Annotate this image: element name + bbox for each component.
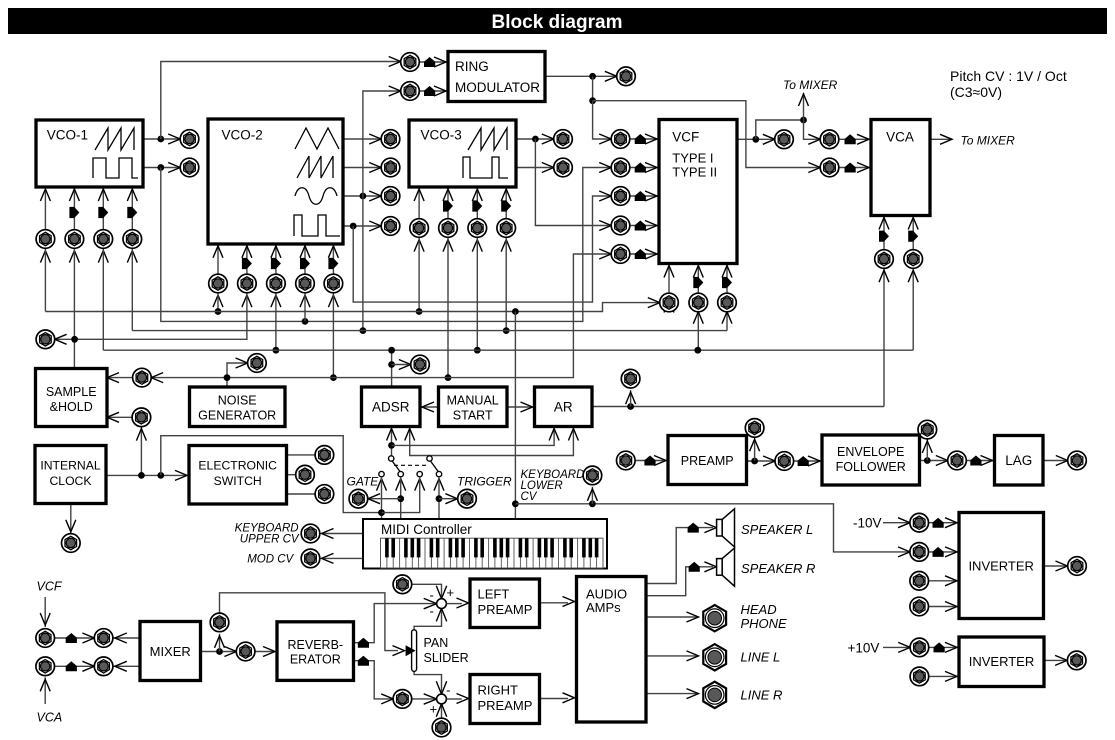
jack VCA in 2 [820, 158, 839, 177]
switch pivot 2 [427, 456, 432, 461]
patch-arrow VCA mod 1 [879, 231, 889, 242]
wire MIDI trig to contact 4 [438, 477, 440, 519]
arrowhead into ADSR trigger [422, 402, 434, 412]
arrowhead into right preamp [457, 694, 469, 704]
wire VCF input 2 jack to box [630, 167, 659, 169]
jack mixer out [236, 642, 255, 661]
box AR [535, 387, 593, 427]
svg-text:SPEAKER L: SPEAKER L [741, 522, 813, 537]
wire VCO-3 mod 477.3 up [476, 187, 478, 219]
svg-text:START: START [453, 409, 493, 423]
jack VCO-1 pulse out [180, 158, 199, 177]
junction EG bus / VCF jack2 [694, 347, 701, 354]
junction kbd lower CV branch [512, 500, 519, 507]
arrowhead into VCO-3 jack 448 [443, 240, 453, 252]
svg-text:REVERB-: REVERB- [288, 638, 344, 652]
svg-text:RING: RING [455, 59, 489, 74]
svg-text:VCO-3: VCO-3 [421, 128, 462, 143]
arrowhead into VCO-3 pulse jack [542, 163, 554, 173]
wire VCO-3 jack1 down to kbd bus [418, 237, 420, 311]
wire left input jack to adder top [412, 584, 442, 599]
wire mixer out jack to reverb [255, 651, 277, 653]
wire mixer out up to jack [219, 634, 221, 652]
arrowhead into switch contact 3 [415, 479, 425, 491]
wire VCF bottom jack2 down to EG bus [697, 312, 699, 351]
svg-text:SWITCH: SWITCH [214, 474, 262, 488]
jack inv1 in3 [910, 572, 929, 591]
wire MIDI to mod CV jack [322, 557, 364, 559]
wire VCF feed down to mixer jack1 [44, 597, 46, 627]
arrowhead into clock out jack [66, 520, 76, 532]
jack right ch in [393, 690, 412, 709]
svg-text:LEFT: LEFT [478, 587, 510, 602]
box LEFT PREAMP [470, 579, 540, 628]
wire VCA output [930, 138, 952, 140]
wire inverter1 out [1044, 565, 1068, 567]
jack VCO-3 mod 448 [439, 219, 458, 238]
svg-text:+: + [447, 585, 455, 600]
VCO-3 saw glyph [468, 128, 507, 150]
junction mixer out branch [216, 648, 223, 655]
wire VCO-3 pulse out to jack [516, 167, 554, 169]
arrowhead into reverberator [263, 647, 275, 657]
patch-arrow VCO-1 mod 103.3 [98, 207, 108, 218]
svg-text:MIDI Controller: MIDI Controller [381, 522, 472, 537]
arrowhead into VCF bottom jack1 [648, 298, 660, 308]
wire mixer jack1 to jack2 [54, 637, 94, 639]
arrowhead into preamp out jack [763, 456, 775, 466]
patch-arrow VCF input 4 [635, 221, 646, 231]
wire VCO-2 sine out to jack [343, 195, 381, 197]
patch-arrow VCO-2 mod 333.4 [328, 258, 338, 269]
wire mixer output [201, 651, 237, 653]
svg-text:SLIDER: SLIDER [424, 651, 469, 665]
arrowhead into -10V jack [898, 518, 910, 528]
arrowhead into VCA bottom jack2 [908, 270, 918, 282]
jack mod CV [301, 549, 320, 568]
patch-arrow VCO-3 mod 506.2 [501, 200, 511, 211]
arrowhead into VCF bottom jack2 [693, 312, 703, 324]
box ELECTRONIC SWITCH [189, 446, 287, 505]
arrowhead into VCA in jack 1 [808, 134, 820, 144]
VCO-2 pulse glyph [294, 215, 340, 236]
svg-text:PHONE: PHONE [741, 616, 788, 631]
jack VCA in 1 [820, 130, 839, 149]
jack GATE [349, 489, 368, 508]
svg-text:MOD CV: MOD CV [247, 554, 294, 566]
junction noise out branch [224, 374, 231, 381]
wire VCO-2 mod 246.9 up [246, 244, 248, 274]
arrowhead into VCO-2 jack 275.9 [271, 295, 281, 307]
patch-arrow lag input [970, 456, 981, 466]
jack VCO-1 mod 45.4 [36, 230, 55, 249]
wire left adder out [446, 603, 461, 605]
jack VCO-1 mod 103.3 [94, 230, 113, 249]
patch-arrow reverb out 1 [358, 638, 369, 648]
VCO-2 saw glyph [297, 156, 333, 178]
arrowhead into VCO-1 jack 74.4 [69, 251, 79, 263]
svg-text:INVERTER: INVERTER [968, 559, 1034, 574]
arrowhead to mixer (upper) [799, 94, 809, 106]
svg-text:AR: AR [554, 400, 573, 415]
jack inv2 out [1067, 651, 1086, 670]
arrowhead into S&H lower jack [136, 429, 146, 441]
jack VCO-2 mod 333.4 [324, 274, 343, 293]
wire right adder out [446, 698, 461, 700]
patch-arrow VCO-3 mod 477.3 [472, 200, 482, 211]
wire audio amp to headphone [646, 616, 699, 618]
wire reverb out top to left adder [354, 604, 438, 643]
svg-text:CLOCK: CLOCK [50, 474, 92, 488]
arrowhead into VCF input 5 [645, 249, 657, 259]
wire VCO-1 saw out to jack [143, 138, 180, 140]
wire S&H lower jack to box [107, 416, 132, 418]
wire VCA feed up to mixer jack3 [44, 677, 46, 704]
junction EG bus / ADSR out [388, 347, 395, 354]
box NOISE GENERATOR [190, 387, 286, 427]
arrowhead into VCO-1 bottom 74.4 [69, 189, 79, 201]
svg-text:TRIGGER: TRIGGER [457, 475, 512, 489]
junction ring out branch 2 [589, 97, 596, 104]
wire audio amp to speaker R [646, 567, 713, 596]
wire VCO-3 jack2 down to noise bus [447, 237, 449, 377]
junction VCO-2 pulse branch [350, 223, 357, 230]
wire VCA in 2 jack to box [839, 167, 871, 169]
wire switch linkage [394, 464, 427, 466]
junction sine bus / VCO-3 [503, 327, 510, 334]
arrowhead into switch contact 2 [396, 479, 406, 491]
wire VCO-2 jack4 down to pulse bus [304, 293, 306, 322]
jack AR out [621, 369, 640, 388]
svg-text:NOISE: NOISE [218, 394, 257, 408]
svg-text:UPPER CV: UPPER CV [240, 534, 300, 546]
arrowhead into lag [981, 456, 993, 466]
wire VCO-2 pulse to VCF input 3 [353, 196, 611, 302]
wire elec switch jack3 wire [287, 493, 316, 495]
wire VCO-1 pulse bus to VCF input 2 [161, 168, 611, 322]
arrowhead VCA out to mixer [940, 134, 952, 144]
wire MIDI pitch CV up to kbd bus [514, 312, 516, 520]
wire manual start to ADSR [420, 406, 439, 408]
arrowhead into VCA bottom jack1 [879, 270, 889, 282]
arrowhead into VCO-2 sine jack [369, 191, 381, 201]
patch-arrow speaker L feed [688, 523, 699, 533]
wire MIDI gate up to contact 1 [381, 477, 383, 519]
wire VCO-2 saw out to jack [343, 167, 381, 169]
patch-arrow ring input 1 [424, 57, 435, 67]
arrowhead into VCA input 2 [857, 163, 869, 173]
jack inv1 in4 [910, 597, 929, 616]
jack TRIGGER [458, 489, 477, 508]
junction sine bus junction [360, 327, 367, 334]
jack kbd upper CV [301, 524, 320, 543]
arrowhead into VCF input jack 5 [599, 249, 611, 259]
arrowhead into S&H upper-left jack [55, 334, 67, 344]
svg-text:RIGHT: RIGHT [478, 683, 519, 698]
patch-arrow VCO-1 mod 74.4 [69, 207, 79, 218]
patch-arrow ring input 2 [424, 86, 435, 96]
arrowhead into right channel jack [381, 694, 393, 704]
wire reverb out bottom [354, 661, 394, 699]
wire VCO-2 mod 218 up [217, 244, 219, 274]
wire -10V jack to inverter [928, 522, 959, 524]
jack lag out [1068, 451, 1087, 470]
svg-text:PREAMP: PREAMP [681, 454, 734, 468]
svg-text:+10V: +10V [848, 641, 880, 656]
arrowhead into inverter2 in1 [945, 642, 957, 652]
jack VCO-2 mod 246.9 [238, 274, 257, 293]
arrowhead into VCF input jack 3 [599, 191, 611, 201]
svg-text:-: - [430, 604, 434, 619]
arrowhead into speaker L [704, 523, 716, 533]
wire VCF out up-over [756, 120, 804, 139]
VCO-1 saw glyph [95, 128, 134, 150]
arrowhead into headphone jack [687, 612, 699, 622]
arrowhead into mixer jack3 [40, 679, 50, 691]
arrowhead into audio amps R [563, 693, 575, 703]
arrowhead into VCO-3 bottom 448 [443, 189, 453, 201]
wire VCF input 1 jack to box [630, 138, 659, 140]
wire EG bus up to VCA jack2 [912, 268, 914, 350]
junction gate jack branch [397, 495, 404, 502]
jack inv1 out [1068, 557, 1087, 576]
VCO-2 sine glyph [295, 188, 337, 205]
box REVERBERATOR [277, 622, 354, 681]
wire clock to switch contacts [161, 436, 382, 513]
wire inverter1 in3 wire [928, 580, 959, 582]
jack VCO-2 mod 305 [296, 274, 315, 293]
patch-arrow VCO-2 mod 246.9 [242, 258, 252, 269]
wire gate line to AR input 1 [392, 427, 555, 446]
arrowhead into right adder (jack line) [436, 704, 446, 717]
svg-text:+: + [430, 701, 438, 716]
jack VCO-3 mod 506.2 [497, 219, 516, 238]
arrowhead into pan slider [393, 646, 405, 656]
svg-text:MANUAL: MANUAL [447, 394, 499, 408]
VCO-1 square glyph [93, 158, 138, 178]
arrowhead into speaker R [704, 562, 716, 572]
arrowhead into VCF input 2 [645, 163, 657, 173]
arrowhead into VCO-1 jack 45.4 [40, 251, 50, 263]
arrowhead into VCF input jack 4 [599, 221, 611, 231]
speaker L icon [717, 509, 735, 547]
junction VCF out branch [752, 136, 759, 143]
summing node left [437, 599, 447, 609]
junction ADSR out jack branch [388, 361, 395, 368]
wire bottom jack to right adder [441, 704, 443, 719]
arrowhead into env branch jack [922, 441, 932, 453]
jack VCO-2 pulse out [381, 217, 400, 236]
svg-text:VCA: VCA [37, 711, 63, 725]
arrowhead into preamp [654, 456, 666, 466]
arrowhead into envelope follower [808, 456, 820, 466]
arrowhead into env out jack [936, 456, 948, 466]
junction S&H line crossing [71, 336, 78, 343]
wire kbd CV jack to inverter [928, 551, 959, 553]
wire VCO-2 jack2 to sample-hold out jack [55, 293, 247, 340]
jack preamp out branch [745, 419, 764, 438]
svg-text:VCF: VCF [672, 130, 699, 145]
arrowhead into VCF bottom jack1 (from kbd bus) [664, 301, 674, 313]
patch-arrow inverter1 in1 [933, 518, 944, 528]
jack VCO-1 mod 74.4 [65, 230, 84, 249]
wire ADSR input 1 down to switch pivot [391, 427, 393, 456]
arrowhead into VCO-1 jack 132.3 [127, 251, 137, 263]
arrowhead into VCO-2 jack 333.4 [328, 295, 338, 307]
jack ring mod in 2 [401, 82, 420, 101]
jack VCF in 1 [611, 130, 630, 149]
svg-text:GATE: GATE [347, 475, 380, 489]
wire ring out to VCA input 2 jack [593, 101, 821, 168]
jack elec sw 1 [315, 446, 334, 465]
svg-text:CV: CV [521, 491, 538, 503]
wire kbd lower CV to inverter [515, 504, 910, 552]
wire VCF bottom jack3 down to sine bus [726, 312, 728, 331]
jack mixer in VCF [36, 629, 55, 648]
wire mixer jack to pan slider [220, 593, 399, 651]
box INTERNAL CLOCK [35, 446, 106, 504]
svg-text:(C3≈0V): (C3≈0V) [950, 84, 1002, 100]
wire VCO-1 pulse out to jack [143, 167, 180, 169]
wire branch up to mixer [803, 93, 805, 120]
arrowhead into sample-hold clock in [107, 412, 119, 422]
arrowhead into preamp branch jack [750, 439, 760, 451]
patch-arrow VCO-2 mod 275.9 [271, 258, 281, 269]
arrowhead into ring out jack [605, 71, 617, 81]
arrowhead into electronic switch [175, 470, 187, 480]
arrowhead into right adder (reverb) [424, 694, 437, 704]
arrowhead into VCO-2 saw jack [369, 163, 381, 173]
jack ADSR out [411, 355, 430, 374]
patch-arrow VCF input 5 [635, 249, 646, 259]
wire tie to contact 3 [382, 477, 420, 513]
svg-text:FOLLOWER: FOLLOWER [836, 460, 906, 474]
arrowhead into mixer branch jack [215, 636, 225, 648]
wire VCF input 3 jack to box [630, 195, 659, 197]
jack VCO-2 sine out [381, 187, 400, 206]
wire VCO-3 jack3 down to EG bus [476, 237, 478, 350]
arrowhead into VCO-3 bottom 477.3 [472, 189, 482, 201]
wire VCO-1 jack1 down to kbd bus [44, 248, 46, 311]
arrowhead into VCF bottom 2 [693, 266, 703, 278]
jack line R [703, 682, 726, 708]
arrowhead into inverter in jack 2 [898, 547, 910, 557]
arrowhead into mixer out jack [224, 647, 236, 657]
arrowhead into inverter1 in4 [945, 602, 957, 612]
wire VCO-1 mod 74.4 up [73, 187, 75, 230]
box INVERTER 2 [959, 637, 1044, 687]
svg-text:-: - [446, 683, 450, 698]
arrowhead into mixer in jack2 (right) [115, 633, 127, 643]
box INVERTER 1 [959, 513, 1044, 619]
junction clock branch to S&H [138, 472, 145, 479]
wire VCO-2 pulse out to jack [343, 225, 381, 227]
jack VCO-2 tri out [381, 130, 400, 149]
patch-arrow VCF bottom 2 [693, 277, 703, 288]
svg-text:VCO-2: VCO-2 [222, 128, 263, 143]
box RING MODULATOR [448, 52, 545, 102]
jack preamp in [617, 451, 636, 470]
arrowhead into sample-hold input [107, 373, 119, 383]
jack noise out [248, 354, 267, 373]
junction kbd lower jack branch [589, 500, 596, 507]
wire mixer jack3 to jack4 [54, 665, 94, 667]
patch-arrow reverb out 2 [358, 656, 369, 666]
wire pan top to left adder bottom [414, 608, 441, 630]
jack kbd lower CV [583, 466, 602, 485]
jack VCF freq mod [660, 293, 679, 312]
wire audio amp to line R [646, 693, 699, 695]
jack elec sw 3 [315, 485, 334, 504]
wire elec switch jack1 wire [287, 454, 316, 456]
arrowhead into mixer in jack4 (right) [115, 661, 127, 671]
patch-arrow VCO-1 mod 132.3 [127, 207, 137, 218]
arrowhead into VCA bottom 1 [879, 218, 889, 230]
wire switch blade 1 [392, 461, 400, 471]
pan slider wiper [406, 645, 416, 656]
wire VCO-3 jack4 down to sine bus [505, 237, 507, 330]
wire VCA in 1 jack to box [839, 138, 871, 140]
arrowhead into switch contact 1 [377, 479, 387, 491]
box AUDIO AMPS [577, 577, 647, 723]
arrowhead into VCO-2 bottom 275.9 [271, 246, 281, 258]
wire keyboard CV bus [45, 303, 659, 312]
switch contact 4 [436, 471, 441, 476]
arrowhead into AR out jack [626, 392, 636, 404]
junction EG bus / VCO-2 [273, 347, 280, 354]
jack VCO-3 mod 477.3 [468, 219, 487, 238]
patch-arrow inverter2 in1 [934, 642, 945, 652]
svg-text:ENVELOPE: ENVELOPE [837, 445, 904, 459]
box VCO-1 [36, 120, 143, 187]
wire VCA jack2 to box [912, 216, 914, 250]
patch-arrow VCF input 1 [635, 134, 646, 144]
arrowhead into VCF input jack 2 [599, 163, 611, 173]
wire ring input 2 jack to box [419, 90, 448, 92]
arrowhead into inverter2 out jack [1055, 655, 1067, 665]
arrowhead into ADSR bottom 2 [405, 429, 415, 441]
arrowhead into VCO-1 saw jack [168, 134, 180, 144]
arrowhead into mixer in jack2 [82, 633, 94, 643]
arrowhead into lag out jack [1056, 456, 1068, 466]
wire MIDI out to contact 2 [400, 477, 402, 519]
wire ring input 1 jack to box [419, 61, 448, 63]
wire branch to VCA input 1 jack [804, 120, 821, 139]
arrowhead into +10V jack [898, 642, 910, 652]
wire VCO-2 sine bus [132, 330, 727, 332]
wire preamp jack to env follower [794, 460, 823, 462]
wire ring out down [592, 76, 594, 100]
jack right ch in 2 [432, 718, 451, 737]
wire switch blade 2 [431, 461, 439, 471]
jack ring mod out [617, 67, 636, 86]
patch-arrow VCF bottom 3 [722, 277, 732, 288]
wire +10V to jack [883, 646, 910, 648]
arrowhead into VCO-3 bottom 419.1 [414, 189, 424, 201]
svg-text:MIXER: MIXER [150, 644, 191, 659]
wire VCF output [737, 138, 775, 140]
wire VCO-3 mod 448 up [447, 187, 449, 219]
arrowhead into VCO-1 bottom 45.4 [40, 189, 50, 201]
wire mixer box to jack2 [113, 637, 140, 639]
jack mixer in 1b [94, 629, 113, 648]
arrowhead into VCO-2 jack 305 [300, 295, 310, 307]
wire mic jack to preamp [635, 460, 668, 462]
arrowhead into AR bottom 2 [568, 429, 578, 441]
arrowhead into switch contact 4 [434, 479, 444, 491]
wire VCF bottom jack3 up [726, 264, 728, 294]
svg-text:Pitch CV : 1V / Oct: Pitch CV : 1V / Oct [950, 68, 1067, 84]
